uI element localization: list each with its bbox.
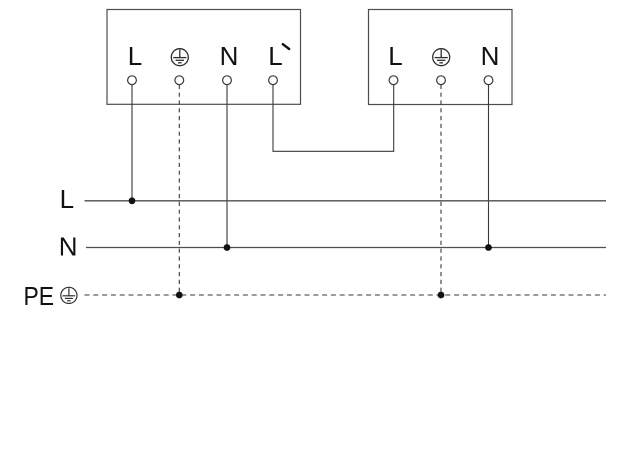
terminal pin circle U2-L xyxy=(389,76,398,85)
wire U1-N terminal to N bus xyxy=(226,85,228,248)
terminal pin circle U2-PE xyxy=(437,76,446,85)
wire U2-PE terminal to PE bus (dashed) xyxy=(440,85,442,295)
wire U1-L` terminal to U2-L terminal (switched live link) xyxy=(273,85,394,152)
junction L bus / U1-L xyxy=(129,197,136,204)
svg-text:N: N xyxy=(59,231,78,261)
terminal pin circle U1-L` xyxy=(269,76,278,85)
device box U2 (load, terminals L ⏚ N) xyxy=(369,10,513,105)
junction N bus / U1-N xyxy=(224,244,231,251)
junction N bus / U2-N xyxy=(485,244,492,251)
earth symbol (U1 terminal 2) xyxy=(171,49,188,66)
net L bus wire xyxy=(85,200,607,202)
junction PE bus / U2-PE xyxy=(438,292,445,299)
device box U1 (sensor/switch, terminals L ⏚ N L`) xyxy=(107,10,301,105)
net N bus wire xyxy=(86,247,606,249)
terminal pin circle U1-L xyxy=(128,76,137,85)
terminal pin circle U1-N xyxy=(223,76,232,85)
svg-text:L: L xyxy=(128,41,142,71)
earth symbol (PE bus) xyxy=(61,287,77,303)
terminal pin circle U1-PE xyxy=(175,76,184,85)
earth symbol (U2 terminal 2) xyxy=(433,49,450,66)
svg-text:N: N xyxy=(220,41,239,71)
wire U2-N terminal to N bus xyxy=(488,85,490,248)
wire U1-PE terminal to PE bus (dashed) xyxy=(178,85,180,295)
wire U1-L terminal to L bus xyxy=(131,85,133,201)
net PE bus wire (dashed) xyxy=(85,294,607,296)
junction PE bus / U1-PE xyxy=(176,292,183,299)
accent mark of L` xyxy=(283,44,289,49)
svg-text:L: L xyxy=(268,41,282,71)
svg-text:N: N xyxy=(481,41,500,71)
svg-text:L: L xyxy=(388,41,402,71)
svg-text:L: L xyxy=(60,184,74,214)
svg-text:PE: PE xyxy=(24,281,55,311)
terminal pin circle U2-N xyxy=(484,76,493,85)
